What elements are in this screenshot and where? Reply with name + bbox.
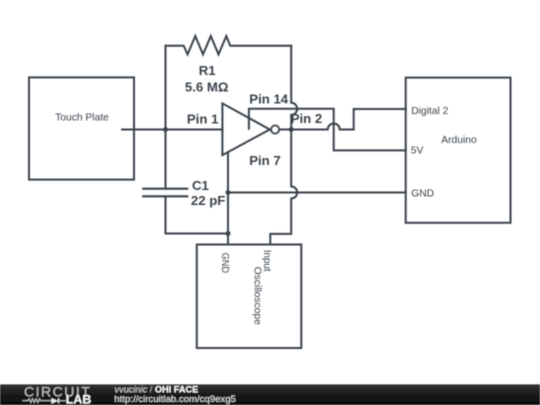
- svg-text:Pin 14: Pin 14: [249, 91, 289, 106]
- svg-text:Digital 2: Digital 2: [411, 106, 448, 117]
- svg-text:Pin 7: Pin 7: [249, 153, 281, 168]
- svg-text:Pin 1: Pin 1: [187, 111, 219, 126]
- svg-text:GND: GND: [411, 188, 434, 199]
- svg-text:Oscilloscope: Oscilloscope: [252, 267, 263, 326]
- svg-text:Pin 2: Pin 2: [291, 111, 323, 126]
- svg-text:22 pF: 22 pF: [191, 193, 225, 208]
- svg-text:Touch Plate: Touch Plate: [55, 113, 109, 124]
- svg-text:vvucinic / OHI FACE: vvucinic / OHI FACE: [115, 384, 199, 394]
- svg-text:5.6 MΩ: 5.6 MΩ: [185, 80, 229, 95]
- svg-text:R1: R1: [199, 63, 216, 78]
- svg-text:LAB: LAB: [66, 393, 92, 405]
- svg-text:Arduino: Arduino: [441, 135, 477, 146]
- svg-text:5V: 5V: [411, 146, 424, 157]
- svg-text:http://circuitlab.com/cq9exg5: http://circuitlab.com/cq9exg5: [114, 394, 236, 405]
- svg-text:C1: C1: [192, 178, 209, 193]
- svg-text:Input: Input: [261, 250, 272, 272]
- svg-text:GND: GND: [219, 253, 230, 274]
